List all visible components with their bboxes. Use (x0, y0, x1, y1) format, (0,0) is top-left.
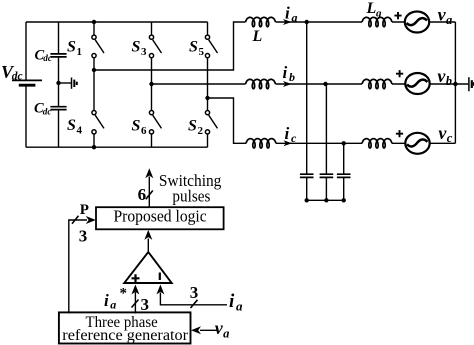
svg-text:i: i (283, 63, 288, 82)
svg-text:dc: dc (43, 107, 52, 117)
svg-text:3: 3 (79, 227, 88, 246)
svg-text:a: a (110, 297, 116, 311)
svg-text:L: L (366, 0, 377, 17)
svg-text:1: 1 (77, 46, 83, 58)
svg-text:b: b (446, 74, 452, 88)
svg-text:S: S (67, 39, 76, 56)
svg-text:c: c (447, 131, 453, 145)
svg-text:L: L (252, 28, 263, 45)
svg-text:i: i (285, 4, 290, 23)
svg-text:S: S (132, 39, 141, 56)
svg-text:reference generator: reference generator (62, 327, 188, 344)
svg-text:b: b (289, 70, 295, 84)
svg-text:2: 2 (198, 125, 204, 137)
svg-text:a: a (223, 326, 229, 340)
svg-text:S: S (132, 118, 141, 135)
svg-text:3: 3 (141, 295, 150, 314)
svg-text:i: i (229, 291, 235, 312)
svg-text:Proposed logic: Proposed logic (114, 206, 208, 225)
svg-text:pulses: pulses (172, 187, 210, 206)
svg-text:P: P (80, 202, 89, 218)
svg-text:S: S (189, 39, 198, 56)
svg-text:3: 3 (190, 283, 199, 302)
svg-text:*: * (120, 286, 128, 302)
svg-text:g: g (375, 8, 382, 20)
svg-text:a: a (292, 11, 298, 25)
svg-text:dc: dc (43, 53, 52, 63)
svg-text:S: S (67, 117, 76, 134)
svg-text:i: i (285, 124, 290, 143)
svg-text:c: c (291, 131, 297, 145)
svg-text:dc: dc (12, 71, 23, 83)
svg-text:a: a (446, 13, 452, 27)
svg-text:i: i (104, 291, 109, 310)
svg-text:5: 5 (199, 46, 205, 58)
svg-text:4: 4 (77, 125, 83, 137)
svg-text:S: S (188, 118, 197, 135)
svg-text:a: a (236, 299, 243, 314)
svg-text:6: 6 (138, 185, 147, 204)
svg-text:6: 6 (141, 125, 147, 137)
svg-text:3: 3 (141, 46, 147, 58)
